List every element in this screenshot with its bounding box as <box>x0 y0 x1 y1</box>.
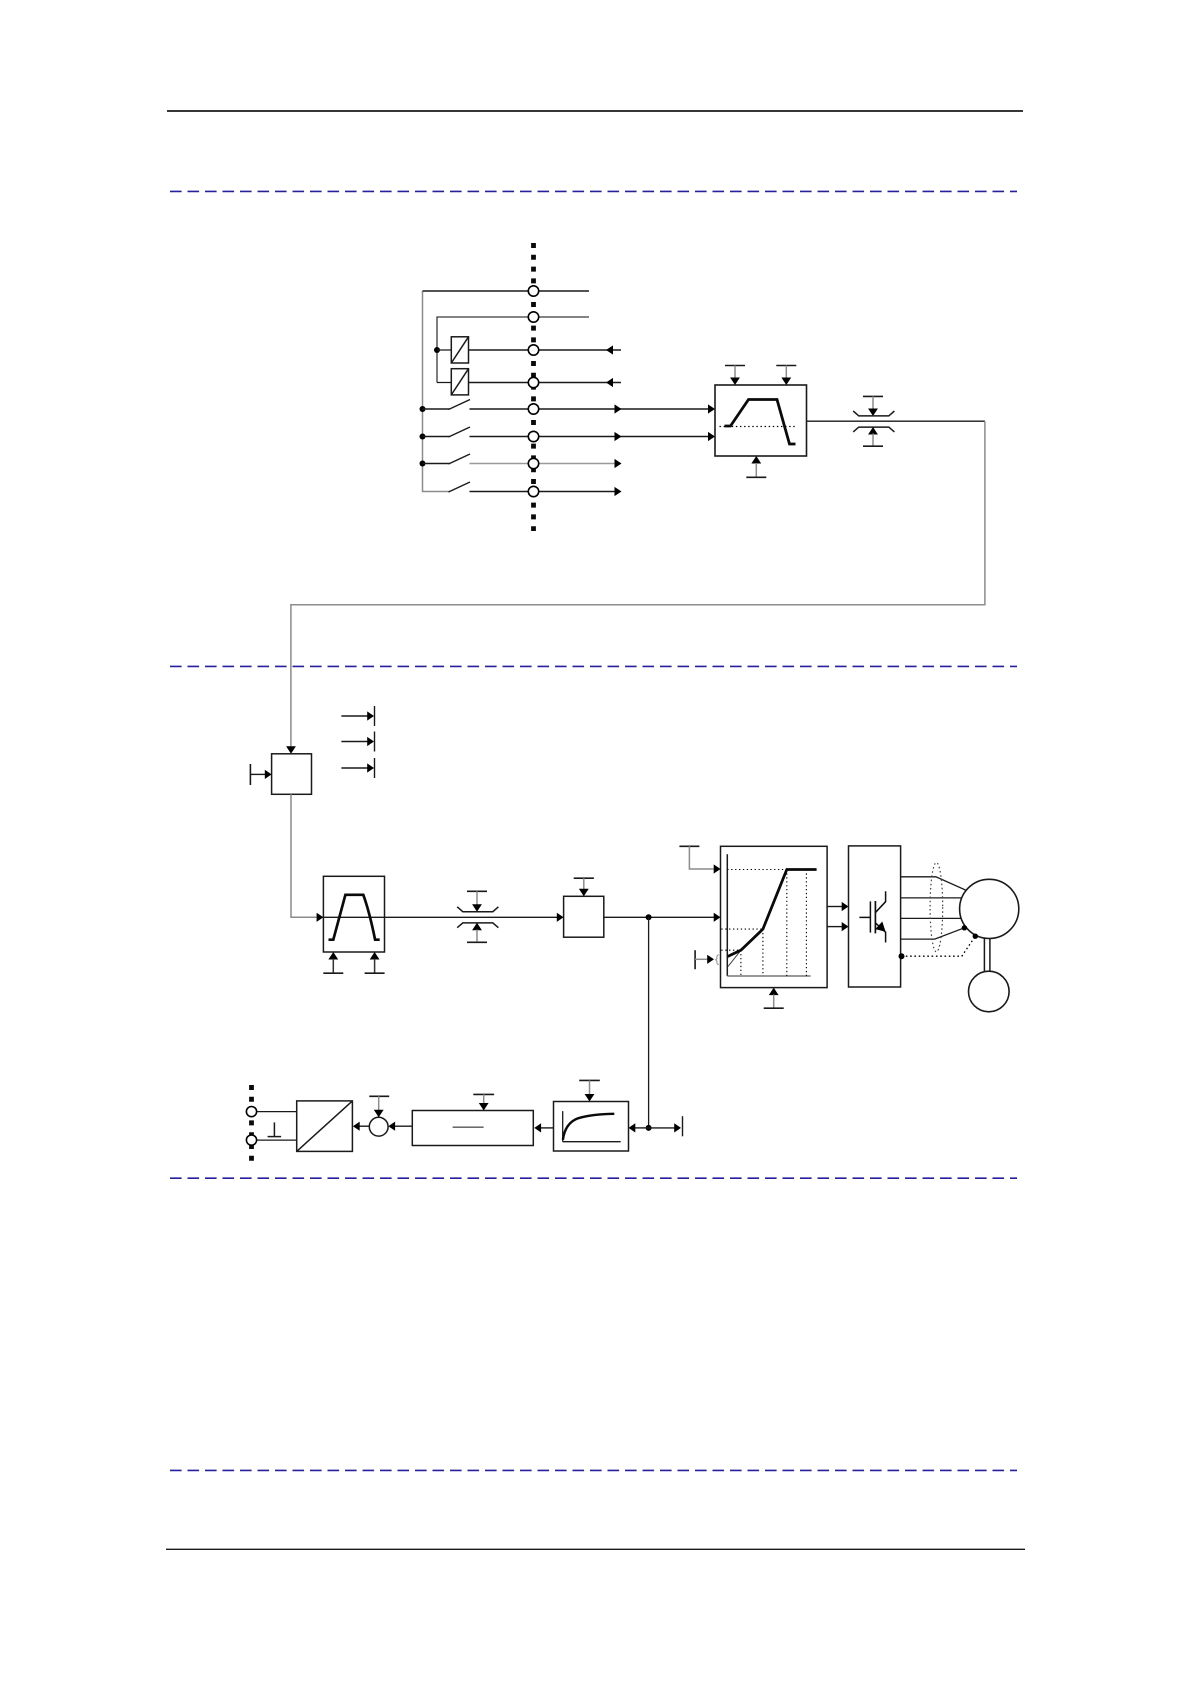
scaling box A2 <box>564 896 604 937</box>
wire selector to ramp generator <box>291 794 317 917</box>
arrow into ramp generator <box>317 913 324 922</box>
arrow row3 left <box>606 345 613 354</box>
DA converter U7 <box>297 1101 353 1152</box>
ground <box>268 1122 282 1136</box>
parameter arrow U1 bottom <box>746 456 766 477</box>
section separator dashed 3 <box>170 1177 1017 1179</box>
page bottom rule <box>166 1548 1025 1550</box>
parameter arrow U2 bottom left <box>323 952 343 973</box>
wire reference routing to lower section <box>291 421 985 747</box>
arrow into filter right <box>629 1123 636 1132</box>
wire row8 digital input <box>470 491 616 493</box>
node shield at inverter <box>899 953 905 959</box>
wire row7 digital input <box>470 463 616 465</box>
arrow into subtractor right <box>534 1123 541 1132</box>
cable screen ellipse <box>930 863 943 952</box>
terminal 1 <box>528 286 538 296</box>
parameter input U3 boost <box>695 950 719 969</box>
wire motor phase 1 <box>901 877 967 891</box>
arrow into selector box top <box>286 746 296 754</box>
page top rule <box>167 110 1023 112</box>
arrow row7 <box>615 459 622 468</box>
node pot bus junction <box>434 347 440 353</box>
reference ramp block U1 <box>715 385 807 456</box>
parameter arrow U2 bottom right <box>365 952 385 973</box>
terminal AO1 <box>246 1107 256 1117</box>
terminal 4 <box>528 377 538 387</box>
limiter symbol 1 <box>853 396 894 446</box>
arrow into DA converter <box>353 1122 360 1131</box>
wire row3 analog input <box>469 349 622 351</box>
arrow into inverter upper <box>842 902 849 911</box>
signal arrow out 3 <box>341 758 374 778</box>
wire motor phase 2 <box>901 897 962 899</box>
ramp generator block U2 <box>323 876 384 952</box>
selector box A1 <box>272 754 312 795</box>
wire motor phase 3 <box>901 917 961 919</box>
signal arrow out 2 <box>341 732 374 752</box>
parameter input U3 top left <box>679 846 720 873</box>
parameter arrow filter top <box>579 1080 600 1101</box>
arrow into summer <box>388 1122 395 1131</box>
section separator dashed 4 <box>170 1469 1017 1471</box>
limiter symbol 2 <box>457 891 498 942</box>
motor M1 <box>960 879 1019 938</box>
terminal 3 <box>528 345 538 355</box>
parameter arrow subtractor top <box>473 1094 494 1110</box>
wire row6 digital input <box>470 436 709 438</box>
wire subtractor to summer <box>395 1125 413 1127</box>
switch S3 <box>423 454 471 464</box>
node bus junction row6 <box>420 434 426 440</box>
wire analog output 1 <box>257 1111 297 1113</box>
wire left bus <box>423 291 451 492</box>
arrow row5 into ramp <box>708 404 715 413</box>
arrow to output bar <box>674 1123 681 1132</box>
subtractor block U6 <box>412 1111 533 1146</box>
wire PE conductor <box>901 928 965 939</box>
node bus junction row5 <box>420 406 426 412</box>
parameter arrow scaling box top <box>574 878 594 896</box>
wire shield dotted <box>902 936 976 956</box>
parameter arrow summer top <box>369 1096 389 1117</box>
transistor Q1 IGBT <box>859 891 885 942</box>
node feedback junction <box>646 1125 652 1131</box>
arrow into inverter lower <box>842 922 849 931</box>
wire U3 output lower <box>827 926 842 928</box>
node motor terminal PE <box>973 934 978 939</box>
switch S4 <box>449 482 471 492</box>
section separator dashed 2 <box>170 665 1017 667</box>
potentiometer R2 <box>451 369 468 395</box>
wire summer to DA converter <box>359 1125 369 1127</box>
terminal AO2 <box>246 1135 256 1145</box>
output bar <box>682 1116 684 1136</box>
parameter arrow U1 top left <box>725 366 745 386</box>
wire to output bar <box>649 1127 675 1129</box>
terminal 7 <box>528 458 538 468</box>
terminal 5 <box>528 404 538 414</box>
potentiometer R1 <box>451 337 468 363</box>
arrow row6 mid <box>615 432 622 441</box>
wire feedback vertical <box>648 917 650 1128</box>
parameter input selector left <box>250 764 271 785</box>
output terminal strip dotted line <box>249 1085 254 1164</box>
switch S1 <box>423 400 471 410</box>
parameter arrow U1 top right <box>776 366 796 386</box>
wire U3 output upper <box>827 906 842 908</box>
parameter arrow U3 bottom <box>764 988 784 1009</box>
wire row2 digital output <box>437 317 589 383</box>
inverter block U4 <box>849 846 901 987</box>
signal arrow out 1 <box>341 706 374 726</box>
arrow row5 mid <box>615 404 622 413</box>
section separator dashed 1 <box>170 190 1017 192</box>
wire row5 digital input <box>470 408 709 410</box>
node motor terminal 1 <box>962 925 967 930</box>
load circle <box>969 971 1010 1012</box>
filter block U5 <box>554 1102 629 1152</box>
arrow into Vf block <box>714 913 721 922</box>
arrow into scaling box <box>557 913 564 922</box>
wire junction to filter <box>635 1127 649 1129</box>
wire row4 analog input <box>469 382 622 384</box>
wire U2 output <box>385 916 558 918</box>
wire pot stubs <box>437 350 451 383</box>
arrow row4 left <box>606 378 613 387</box>
arrow IGBT emitter <box>875 922 885 932</box>
arrow row6 into ramp <box>708 432 715 441</box>
V/f characteristic block U3 <box>721 846 828 987</box>
wire U1 output <box>807 420 985 422</box>
wire analog output 2 <box>257 1139 297 1141</box>
node bus junction row7 <box>420 461 426 467</box>
switch S2 <box>423 427 471 437</box>
terminal 6 <box>528 431 538 441</box>
wire scaling box to Vf block <box>604 916 714 918</box>
summing point <box>369 1117 388 1136</box>
terminal 8 <box>528 486 538 496</box>
wire row1 digital output <box>423 290 590 292</box>
terminal strip dotted line <box>531 243 536 531</box>
wire filter to subtractor <box>541 1127 554 1129</box>
terminal 2 <box>528 312 538 322</box>
motor shaft <box>984 938 990 971</box>
arrow row8 <box>615 487 622 496</box>
node frequency reference junction <box>646 914 652 920</box>
